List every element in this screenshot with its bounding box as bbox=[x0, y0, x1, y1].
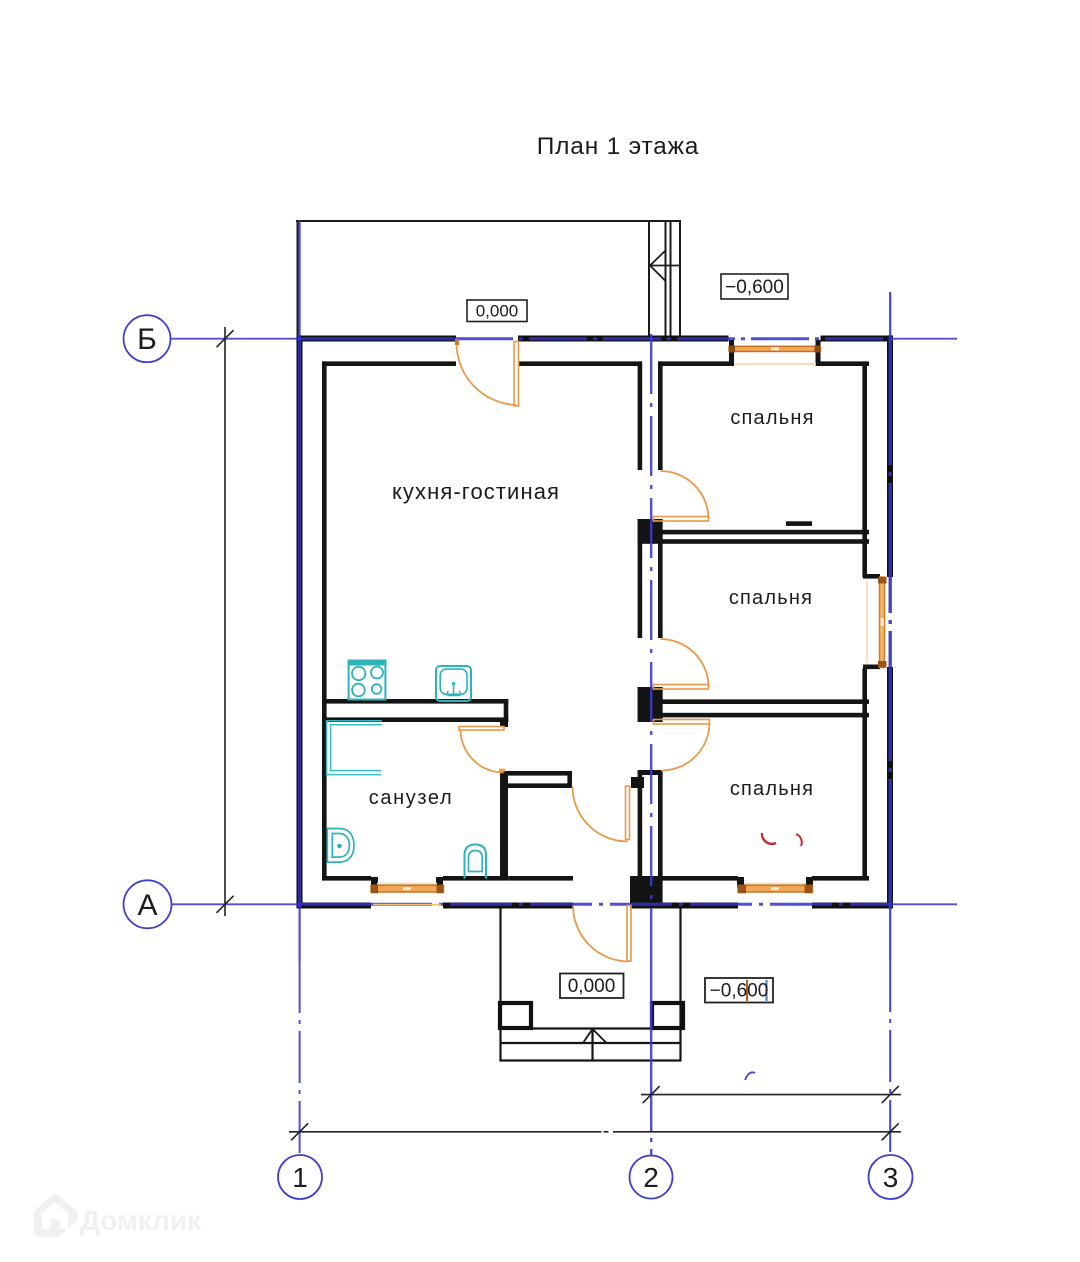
svg-text:спальня: спальня bbox=[730, 778, 814, 800]
door bedroom3 arc bbox=[661, 723, 710, 771]
stove bbox=[349, 661, 386, 700]
svg-text:2: 2 bbox=[643, 1162, 659, 1193]
svg-text:Домклик: Домклик bbox=[80, 1205, 202, 1236]
red mark bedroom3 small bbox=[796, 834, 802, 846]
door bedroom1 leaf bbox=[654, 517, 709, 522]
porch entry arrow chevron bbox=[583, 1029, 607, 1043]
terrace outline bbox=[296, 221, 681, 336]
window bedroom3 bottom frame bbox=[738, 884, 813, 894]
stray blue mark bbox=[745, 1072, 755, 1080]
axis circle 2 bbox=[630, 1156, 673, 1199]
axis circle 1 bbox=[278, 1155, 322, 1199]
elevation box 0,000 porch bbox=[560, 974, 624, 999]
door bedroom2 arc bbox=[661, 639, 709, 687]
svg-text:кухня-гостиная: кухня-гостиная bbox=[392, 479, 560, 504]
inner wall lines bbox=[322, 340, 880, 909]
axis line B horizontal bbox=[171, 338, 957, 340]
window bedroom2 right frame bbox=[867, 577, 887, 668]
door bathroom leaf bbox=[459, 727, 504, 731]
window bedroom1 top frame bbox=[729, 346, 821, 365]
svg-text:А: А bbox=[137, 889, 157, 922]
door bedroom1 arc bbox=[661, 471, 709, 519]
svg-text:−0,600: −0,600 bbox=[710, 981, 769, 1002]
svg-text:3: 3 bbox=[883, 1162, 899, 1193]
terrace entry arrow bbox=[650, 250, 680, 282]
axis line A horizontal bbox=[172, 903, 957, 905]
watermark Domklik house icon bbox=[34, 1193, 77, 1237]
elevation box -0,600 top bbox=[721, 274, 788, 299]
svg-text:0,000: 0,000 bbox=[568, 976, 616, 997]
axis line 2 vertical bbox=[650, 334, 652, 1156]
porch post left bbox=[500, 1003, 531, 1028]
svg-text:0,000: 0,000 bbox=[476, 302, 519, 321]
svg-text:1: 1 bbox=[292, 1162, 308, 1193]
door kitchen-terrace arc bbox=[456, 343, 516, 406]
door entrance arc bbox=[573, 906, 629, 962]
door bedroom3 leaf bbox=[654, 720, 710, 725]
axis circle 3 bbox=[869, 1155, 913, 1199]
svg-text:спальня: спальня bbox=[729, 587, 813, 609]
door bathroom arc bbox=[461, 730, 504, 773]
elevation box 0,000 top bbox=[467, 300, 527, 322]
porch post right bbox=[652, 1003, 683, 1028]
wash basin bbox=[327, 829, 354, 863]
dimension line bottom 2-3 bbox=[641, 1086, 901, 1103]
dimension line left vertical bbox=[217, 327, 234, 916]
window bathroom bottom frame bbox=[371, 884, 444, 894]
door hall leaf bbox=[626, 786, 630, 840]
svg-text:Б: Б bbox=[137, 323, 157, 356]
kitchen sink bbox=[436, 666, 471, 701]
door hall arc bbox=[573, 787, 628, 842]
axis circle A bbox=[124, 880, 172, 928]
outer walls bbox=[297, 336, 894, 909]
svg-text:санузел: санузел bbox=[369, 787, 453, 809]
porch outline and steps bbox=[500, 909, 682, 1061]
red mark bedroom3 bbox=[762, 833, 776, 844]
svg-text:−0,600: −0,600 bbox=[725, 277, 784, 298]
shower cabin bbox=[327, 721, 382, 775]
elevation box -0,600 porch bbox=[705, 978, 773, 1003]
dimension line bottom 1-3 bbox=[289, 1123, 901, 1140]
svg-text:План 1 этажа: План 1 этажа bbox=[537, 133, 699, 160]
toilet bbox=[465, 845, 487, 879]
door bedroom2 leaf bbox=[654, 685, 709, 690]
hall wall corner tick bbox=[499, 769, 505, 772]
door kitchen-terrace jamb tick bbox=[455, 339, 459, 345]
faint sill line under bathroom window bbox=[373, 904, 441, 906]
door kitchen-terrace leaf bbox=[514, 342, 519, 407]
axis circle B bbox=[124, 315, 171, 362]
axis line 1 vertical bbox=[299, 221, 301, 1157]
door entrance leaf bbox=[627, 906, 631, 962]
axis line 3 vertical bbox=[889, 292, 891, 1156]
svg-text:спальня: спальня bbox=[730, 407, 814, 429]
